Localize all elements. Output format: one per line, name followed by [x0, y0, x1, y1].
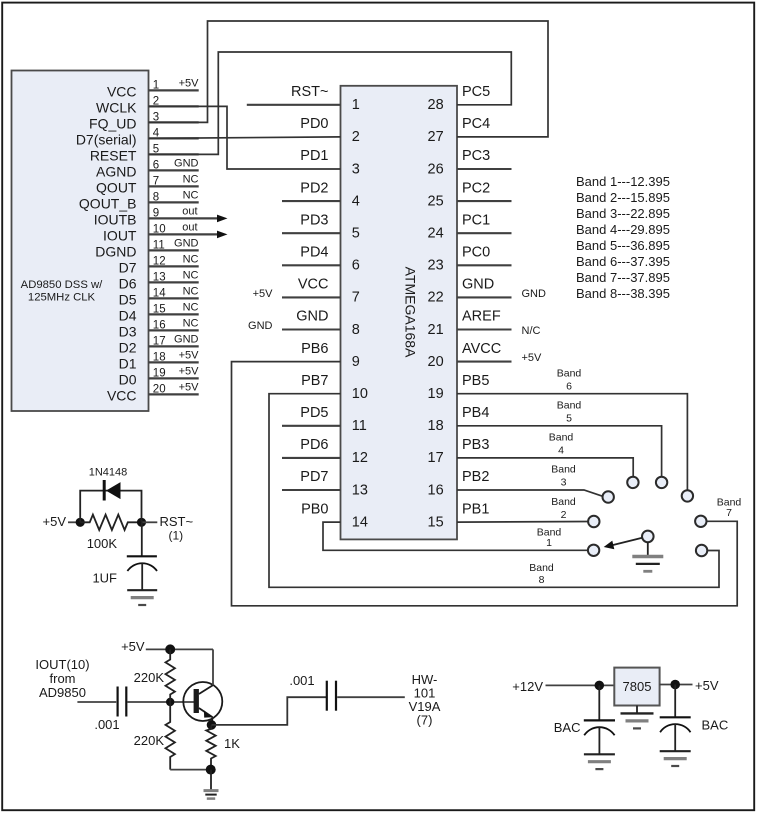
svg-text:1N4148: 1N4148 [89, 467, 128, 479]
svg-text:4: 4 [558, 445, 564, 457]
svg-text:+5V: +5V [179, 366, 200, 378]
svg-text:IOUTB: IOUTB [94, 212, 137, 228]
svg-text:D3: D3 [119, 324, 137, 340]
AD9850 pin 4 (D7(serial)) [76, 127, 199, 147]
AD9850 pin 6 (AGND, GND) [96, 158, 199, 180]
node IOUT(10) from AD9850 [35, 657, 89, 700]
ATMEGA168A pin 15 (PB1) [428, 501, 490, 530]
svg-text:out: out [182, 222, 197, 234]
wire +12V input [546, 684, 615, 686]
AD9850 pin 5 (RESET) [90, 143, 199, 163]
switch contact Band 1 [588, 545, 599, 556]
svg-text:9: 9 [352, 354, 360, 370]
label Band 2 [551, 496, 576, 521]
resistor R4 1K [206, 725, 240, 770]
rotor wiper ground [632, 542, 663, 571]
svg-text:23: 23 [428, 258, 444, 274]
svg-text:.001: .001 [289, 673, 314, 688]
ground (output cap) [660, 724, 691, 766]
svg-text:GND: GND [462, 277, 494, 293]
ATMEGA168A pin 9 (PB6) [301, 341, 360, 370]
svg-text:1: 1 [546, 537, 552, 549]
svg-text:1: 1 [352, 97, 360, 113]
svg-text:(1): (1) [169, 529, 184, 543]
svg-text:+5V: +5V [121, 639, 145, 654]
svg-text:VCC: VCC [298, 277, 329, 293]
junction dot emitter node [207, 720, 217, 730]
svg-text:18: 18 [428, 418, 444, 434]
svg-text:+5V: +5V [522, 352, 543, 364]
AD9850 pin 12 (D7, NC) [119, 254, 199, 276]
switch contact Band 5 [656, 477, 667, 488]
AD9850 pin 16 (D3, NC) [119, 318, 199, 340]
switch contact Band 8 [696, 545, 707, 556]
svg-text:GND: GND [248, 320, 273, 332]
ATMEGA168A pin 16 (PB2) [428, 469, 490, 498]
svg-text:Band: Band [529, 562, 554, 574]
diode D1 1N4148 [89, 467, 128, 501]
wire ATMEGA pin15 PB1 to Band 2 contact [457, 521, 588, 524]
ATMEGA168A pin 19 (PB5) [428, 373, 490, 402]
ATMEGA168A pin 6 (PD4) [282, 245, 360, 274]
ATMEGA168A pin 7 (VCC) [253, 277, 360, 306]
capacitor C2 .001 (input) [94, 687, 126, 733]
wire collector to +5V [212, 649, 214, 685]
svg-text:+5V: +5V [695, 678, 719, 693]
ground (7805) [621, 706, 654, 729]
svg-text:PD0: PD0 [300, 116, 328, 132]
svg-text:+5V: +5V [179, 350, 200, 362]
ATMEGA168A pin 4 (PD2) [282, 180, 360, 209]
svg-text:D7(serial): D7(serial) [76, 132, 137, 148]
ATMEGA168A pin 14 (PB0) [301, 501, 368, 530]
AD9850 pin 3 (FQ_UD) [89, 111, 199, 131]
wire diode branch [80, 491, 141, 523]
svg-text:D7: D7 [119, 260, 137, 276]
svg-text:QOUT: QOUT [96, 180, 137, 196]
svg-text:PD2: PD2 [300, 180, 328, 196]
svg-text:Band: Band [551, 464, 576, 476]
AD9850 pin 19 (D0, +5V) [119, 366, 200, 388]
AD9850 pin 13 (D6, NC) [119, 270, 199, 292]
switch contact Band 3 [603, 491, 614, 502]
svg-text:PB6: PB6 [301, 341, 328, 357]
svg-text:16: 16 [428, 482, 444, 498]
svg-text:14: 14 [352, 514, 368, 530]
svg-text:PB3: PB3 [462, 437, 489, 453]
AD9850 pin 11 (DGND, GND) [95, 238, 198, 260]
svg-text:NC: NC [183, 190, 199, 202]
svg-text:PB5: PB5 [462, 373, 489, 389]
svg-text:Band 7---37.895: Band 7---37.895 [576, 270, 670, 285]
svg-text:ATMEGA168A: ATMEGA168A [403, 267, 419, 358]
AD9850 pin 8 (QOUT_B, NC) [79, 190, 199, 212]
IC U2 ATMEGA168A body [341, 86, 458, 540]
svg-text:10: 10 [352, 386, 368, 402]
wire ATMEGA pin9 PB6 to Band 7 contact [232, 362, 738, 606]
svg-text:PB4: PB4 [462, 405, 489, 421]
wire AD9850 pin3 FQ_UD to ATMEGA pin27 PC4 [149, 21, 549, 137]
junction dot node RST~ [137, 518, 146, 527]
svg-text:+5V: +5V [43, 514, 67, 529]
ATMEGA168A pin 20 (AVCC) [428, 341, 542, 370]
svg-text:27: 27 [428, 129, 444, 145]
node +5V (regulator output) [695, 678, 719, 693]
wire ATMEGA pin19 PB5 to Band 6 contact [457, 394, 687, 490]
svg-text:VCC: VCC [107, 388, 137, 404]
svg-text:7: 7 [352, 290, 360, 306]
junction dot [76, 518, 85, 527]
svg-text:12: 12 [352, 450, 368, 466]
svg-text:8: 8 [539, 574, 545, 586]
ATMEGA168A pin 13 (PD7) [282, 469, 368, 498]
svg-text:DGND: DGND [95, 244, 136, 260]
label Band 1 [537, 527, 562, 549]
IC U1 AD9850 DDS body [12, 71, 149, 412]
svg-text:PB2: PB2 [462, 469, 489, 485]
svg-text:6: 6 [566, 380, 572, 392]
svg-text:PC0: PC0 [462, 245, 490, 261]
svg-text:PC1: PC1 [462, 212, 490, 228]
svg-text:6: 6 [352, 258, 360, 274]
svg-text:NC: NC [183, 254, 199, 266]
node: band frequency list [576, 174, 670, 301]
svg-text:24: 24 [428, 226, 444, 242]
AD9850 pin 7 (QOUT, NC) [96, 174, 199, 196]
svg-text:Band 2---15.895: Band 2---15.895 [576, 190, 670, 205]
label Band 3 [551, 464, 576, 489]
AD9850 pin 15 (D4, NC) [119, 302, 199, 324]
label Band 8 [529, 562, 554, 586]
svg-text:AVCC: AVCC [462, 341, 501, 357]
wire +5V output [660, 684, 693, 686]
svg-text:PC4: PC4 [462, 116, 490, 132]
svg-text:Band: Band [551, 496, 576, 508]
AD9850 pin 1 (VCC, +5V) [107, 78, 199, 100]
label Band 5 [557, 400, 582, 425]
svg-text:PC5: PC5 [462, 84, 490, 100]
svg-text:4: 4 [352, 193, 360, 209]
ATMEGA168A pin 2 (PD0) [300, 116, 360, 145]
svg-text:125MHz CLK: 125MHz CLK [28, 292, 96, 304]
svg-text:3: 3 [352, 161, 360, 177]
svg-text:GND: GND [174, 334, 199, 346]
svg-text:D0: D0 [119, 372, 137, 388]
wire bottom rail [170, 769, 211, 771]
svg-text:D5: D5 [119, 292, 137, 308]
ATMEGA168A pin 10 (PB7) [301, 373, 368, 402]
svg-text:PB1: PB1 [462, 501, 489, 517]
ATMEGA168A pin 21 (AREF) [428, 309, 541, 338]
regulator U3 7805 [614, 668, 659, 706]
ATMEGA168A pin 27 (PC4) [428, 116, 491, 145]
svg-text:NC: NC [183, 286, 199, 298]
svg-text:PD4: PD4 [300, 245, 328, 261]
junction dot input [595, 681, 605, 691]
AD9850 pin 20 (VCC, +5V) [107, 382, 199, 404]
svg-text:.001: .001 [94, 717, 119, 732]
svg-text:(7): (7) [417, 712, 433, 727]
svg-text:NC: NC [183, 318, 199, 330]
svg-text:VCC: VCC [107, 84, 137, 100]
svg-text:Band 4---29.895: Band 4---29.895 [576, 222, 670, 237]
svg-text:GND: GND [174, 158, 199, 170]
resistor R3 220K (lower) [134, 702, 175, 770]
svg-text:from: from [50, 671, 76, 686]
svg-text:19: 19 [428, 386, 444, 402]
svg-text:+5V: +5V [179, 78, 200, 90]
AD9850 pin 9 (IOUTB, out) [94, 206, 228, 228]
junction dot output [670, 680, 680, 690]
switch contact Band 7 [695, 516, 706, 527]
ATMEGA168A pin 12 (PD6) [282, 437, 368, 466]
resistor R2 220K (upper) [134, 649, 175, 702]
ATMEGA168A pin 25 (PC2) [428, 180, 512, 209]
svg-text:+5V: +5V [253, 288, 274, 300]
svg-text:PD7: PD7 [300, 469, 328, 485]
svg-text:NC: NC [183, 174, 199, 186]
node RST~ (to ATMEGA pin 1) [142, 514, 194, 543]
svg-text:20: 20 [428, 354, 444, 370]
wire ATMEGA pin16 PB2 to Band 3 contact [457, 490, 603, 496]
ground (input cap) [584, 727, 615, 769]
wire AD9850 pin5 RESET to ATMEGA pin28 PC5 [149, 52, 512, 154]
ground (reset circuit) [127, 563, 157, 605]
svg-text:Band 3---22.895: Band 3---22.895 [576, 206, 670, 221]
svg-text:PD1: PD1 [300, 148, 328, 164]
svg-text:AREF: AREF [462, 309, 501, 325]
wire emitter to output cap [212, 697, 327, 725]
node +5V (buffer) [121, 639, 145, 654]
svg-text:GND: GND [174, 238, 199, 250]
svg-text:220K: 220K [134, 733, 165, 748]
label Band 4 [549, 432, 574, 457]
svg-text:21: 21 [428, 322, 444, 338]
svg-text:BAC: BAC [554, 720, 581, 735]
capacitor C3 .001 (output) [289, 673, 336, 711]
svg-text:2: 2 [561, 509, 567, 521]
svg-text:IOUT(10): IOUT(10) [35, 657, 89, 672]
ATMEGA168A pin 24 (PC1) [428, 212, 512, 241]
svg-text:AD9850 DSS w/: AD9850 DSS w/ [21, 279, 103, 291]
switch contact Band 6 [682, 490, 693, 501]
svg-text:Band: Band [549, 432, 574, 444]
svg-text:D1: D1 [119, 356, 137, 372]
svg-text:220K: 220K [134, 670, 165, 685]
svg-text:RST~: RST~ [160, 514, 194, 529]
svg-text:8: 8 [352, 322, 360, 338]
svg-text:FQ_UD: FQ_UD [89, 116, 136, 132]
svg-text:26: 26 [428, 161, 444, 177]
wire ATMEGA pin10 PB7 to Band 8 contact [269, 394, 719, 588]
svg-text:PC2: PC2 [462, 180, 490, 196]
svg-text:15: 15 [428, 514, 444, 530]
label Band 6 [557, 367, 582, 392]
svg-text:PB0: PB0 [301, 501, 328, 517]
svg-text:AD9850: AD9850 [39, 685, 86, 700]
wire AD9850 pin4 D7(serial) to ATMEGA pin2 PD0 [149, 137, 341, 139]
svg-text:D2: D2 [119, 340, 137, 356]
ATMEGA168A pin 3 (PD1) [300, 148, 360, 177]
svg-text:QOUT_B: QOUT_B [79, 196, 137, 212]
svg-text:28: 28 [428, 97, 444, 113]
svg-text:22: 22 [428, 290, 444, 306]
junction dot bottom [206, 765, 216, 775]
junction dot base node [166, 698, 174, 706]
svg-text:1K: 1K [224, 736, 240, 751]
svg-text:Band 1---12.395: Band 1---12.395 [576, 174, 670, 189]
svg-text:Band 8---38.395: Band 8---38.395 [576, 286, 670, 301]
wire ATMEGA pin17 PB3 to Band 4 contact [457, 458, 633, 477]
ATMEGA168A pin 1 (RST~) [247, 84, 360, 113]
wire output [337, 696, 405, 698]
svg-text:RESET: RESET [90, 148, 137, 164]
svg-text:1UF: 1UF [92, 571, 117, 586]
ATMEGA168A pin 11 (PD5) [282, 405, 367, 434]
AD9850 pin 10 (IOUT, out) [103, 222, 227, 244]
junction dot on +5V rail [165, 644, 175, 654]
svg-text:13: 13 [352, 482, 368, 498]
node HW-101 V19A (7) [409, 672, 441, 728]
svg-text:Band 6---37.395: Band 6---37.395 [576, 254, 670, 269]
wire +5V rail [146, 648, 213, 650]
svg-text:2: 2 [352, 129, 360, 145]
svg-text:5: 5 [566, 413, 572, 425]
svg-text:PD6: PD6 [300, 437, 328, 453]
ATMEGA168A pin 17 (PB3) [428, 437, 490, 466]
capacitor C1 1UF [92, 522, 157, 585]
capacitor C5 BAC (output) [660, 685, 729, 733]
ATMEGA168A pin 26 (PC3) [428, 148, 512, 177]
svg-text:5: 5 [352, 226, 360, 242]
svg-text:Band: Band [557, 400, 582, 412]
svg-text:7: 7 [726, 507, 732, 519]
node +5V (reset circuit) [43, 514, 81, 529]
resistor R1 100K [80, 515, 141, 551]
svg-text:WCLK: WCLK [96, 100, 137, 116]
switch contact Band 4 [627, 477, 638, 488]
svg-text:RST~: RST~ [291, 84, 328, 100]
capacitor C4 BAC (input) [554, 685, 615, 735]
svg-text:PC3: PC3 [462, 148, 490, 164]
svg-text:GND: GND [296, 309, 328, 325]
transistor Q1 [183, 682, 222, 725]
svg-text:Band 5---36.895: Band 5---36.895 [576, 238, 670, 253]
ground (buffer) [204, 770, 219, 799]
svg-text:17: 17 [428, 450, 444, 466]
svg-text:7805: 7805 [623, 679, 652, 694]
wire input [77, 701, 116, 703]
rotary switch rotor SW1 [604, 531, 654, 550]
svg-text:out: out [182, 206, 197, 218]
svg-text:PD5: PD5 [300, 405, 328, 421]
ATMEGA168A pin 18 (PB4) [428, 405, 490, 434]
ATMEGA168A pin 22 (GND) [428, 277, 546, 306]
AD9850 pin 2 (WCLK) [96, 95, 199, 115]
svg-text:D6: D6 [119, 276, 137, 292]
svg-text:+5V: +5V [179, 382, 200, 394]
svg-text:Band: Band [557, 367, 582, 379]
svg-text:11: 11 [352, 418, 367, 434]
svg-text:PD3: PD3 [300, 212, 328, 228]
ATMEGA168A pin 28 (PC5) [428, 84, 491, 113]
svg-text:N/C: N/C [522, 325, 541, 337]
svg-text:NC: NC [183, 270, 199, 282]
label Band 7 [717, 496, 742, 519]
svg-text:GND: GND [522, 288, 547, 300]
svg-text:BAC: BAC [702, 718, 729, 733]
node +12V [512, 679, 543, 694]
wire AD9850 pin2 WCLK to ATMEGA pin3 PD1 [149, 106, 341, 169]
svg-text:D4: D4 [119, 308, 137, 324]
ATMEGA168A pin 23 (PC0) [428, 245, 512, 274]
svg-text:IOUT: IOUT [103, 228, 137, 244]
AD9850 pin 18 (D1, +5V) [119, 350, 200, 372]
svg-text:100K: 100K [87, 536, 118, 551]
svg-text:AGND: AGND [96, 164, 136, 180]
svg-text:NC: NC [183, 302, 199, 314]
svg-text:+12V: +12V [512, 679, 543, 694]
AD9850 pin 14 (D5, NC) [119, 286, 199, 308]
ATMEGA168A pin 8 (GND) [248, 309, 360, 338]
AD9850 pin 17 (D2, GND) [119, 334, 199, 356]
switch contact Band 2 [588, 516, 599, 527]
svg-text:25: 25 [428, 193, 444, 209]
wire ATMEGA pin14 PB0 to Band 1 contact [323, 522, 588, 550]
wire cap to base [128, 701, 195, 703]
svg-text:PB7: PB7 [301, 373, 328, 389]
ATMEGA168A pin 5 (PD3) [282, 212, 360, 241]
svg-text:3: 3 [561, 477, 567, 489]
wire ATMEGA pin18 PB4 to Band 5 contact [457, 426, 662, 477]
